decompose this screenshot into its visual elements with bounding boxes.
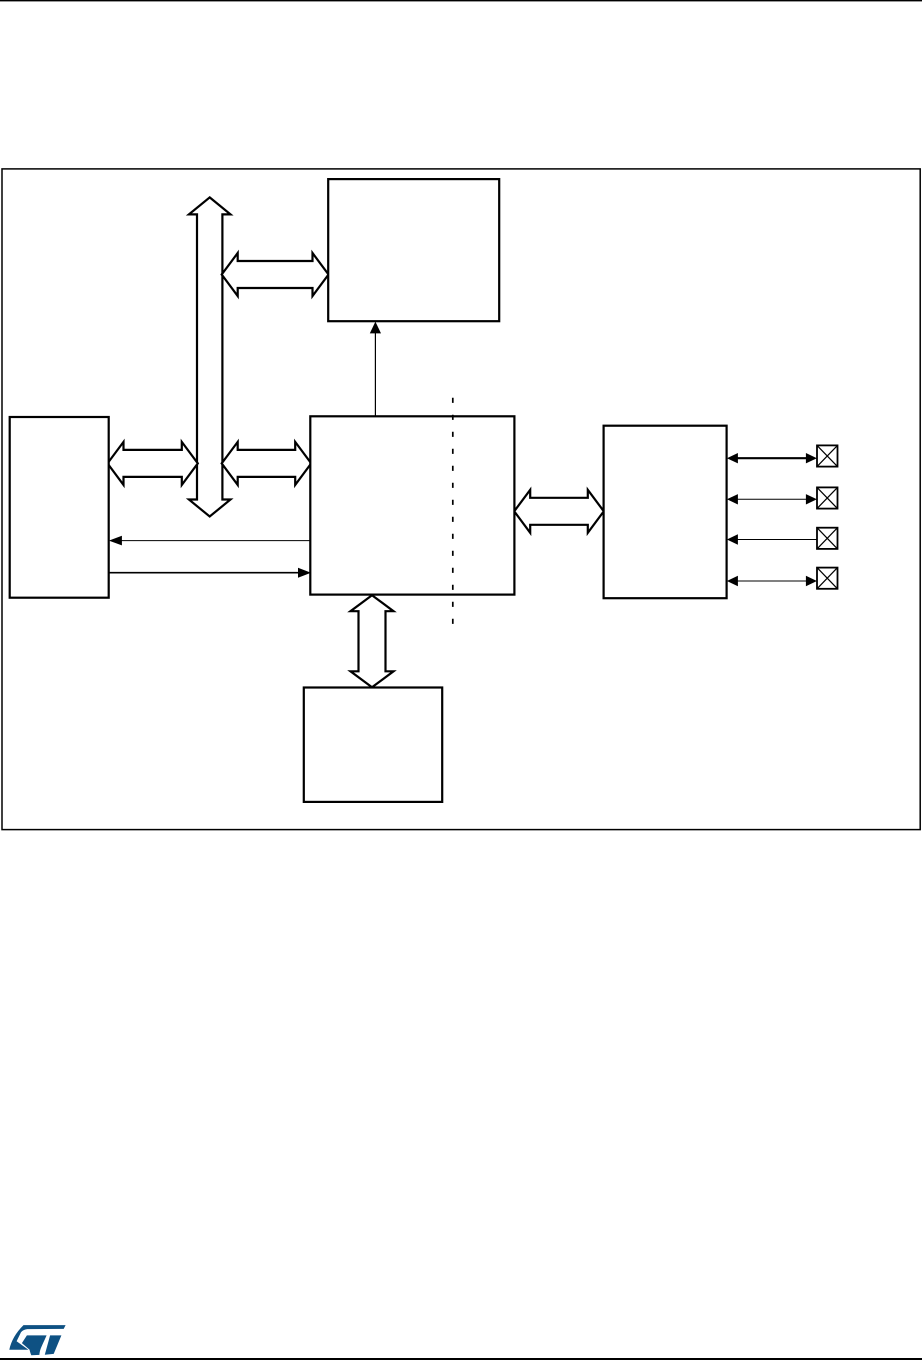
ST logo: swoosh (S top bar + left diagonal + bottom triangle) (9, 1325, 65, 1350)
wire: I/O line 3 (input) from pad 3 to right box (727, 534, 817, 544)
ST logo: S middle wedge (22, 1335, 47, 1355)
dashed partition line through central block (452, 398, 454, 628)
block: right peripheral box (604, 426, 727, 599)
block: central CPU box (310, 416, 514, 594)
footer rule (bottom of page) (0, 1358, 922, 1360)
block: left interface box (10, 417, 109, 598)
wire: arrow from left box to central block (109, 568, 311, 578)
pad: I/O pad 3 (crossed box) (817, 528, 838, 549)
pad: I/O pad 1 (crossed box) (817, 445, 838, 466)
ST logo: T diagonal stem (45, 1335, 62, 1354)
wire: I/O line 1 (thick, double-headed) from right box to pad 1 (727, 453, 817, 463)
block: bottom memory box (304, 688, 442, 802)
bus arrow: horizontal double arrow to top memory block (222, 253, 329, 296)
bus arrow: central block down to bottom block (351, 595, 394, 687)
wire: I/O line 4 (double-headed) from right box to pad 4 (727, 576, 817, 586)
bus arrow: main vertical double arrow (system bus) (189, 197, 231, 516)
block: top memory box (328, 179, 499, 321)
header rule (top of page) (0, 0, 922, 1)
bus arrow: left block to vertical bus (108, 442, 198, 485)
wire: I/O line 2 (double-headed) from right box to pad 2 (727, 494, 817, 504)
bus arrow: vertical bus to central block (222, 442, 312, 485)
wire: arrow from central block up to top box (370, 322, 381, 417)
figure frame (2, 169, 920, 830)
pad: I/O pad 4 (crossed box) (817, 568, 838, 589)
bus arrow: central block to right peripheral block (514, 490, 604, 533)
wire: thin arrow from central block to left box (109, 536, 311, 546)
pad: I/O pad 2 (crossed box) (817, 487, 838, 508)
